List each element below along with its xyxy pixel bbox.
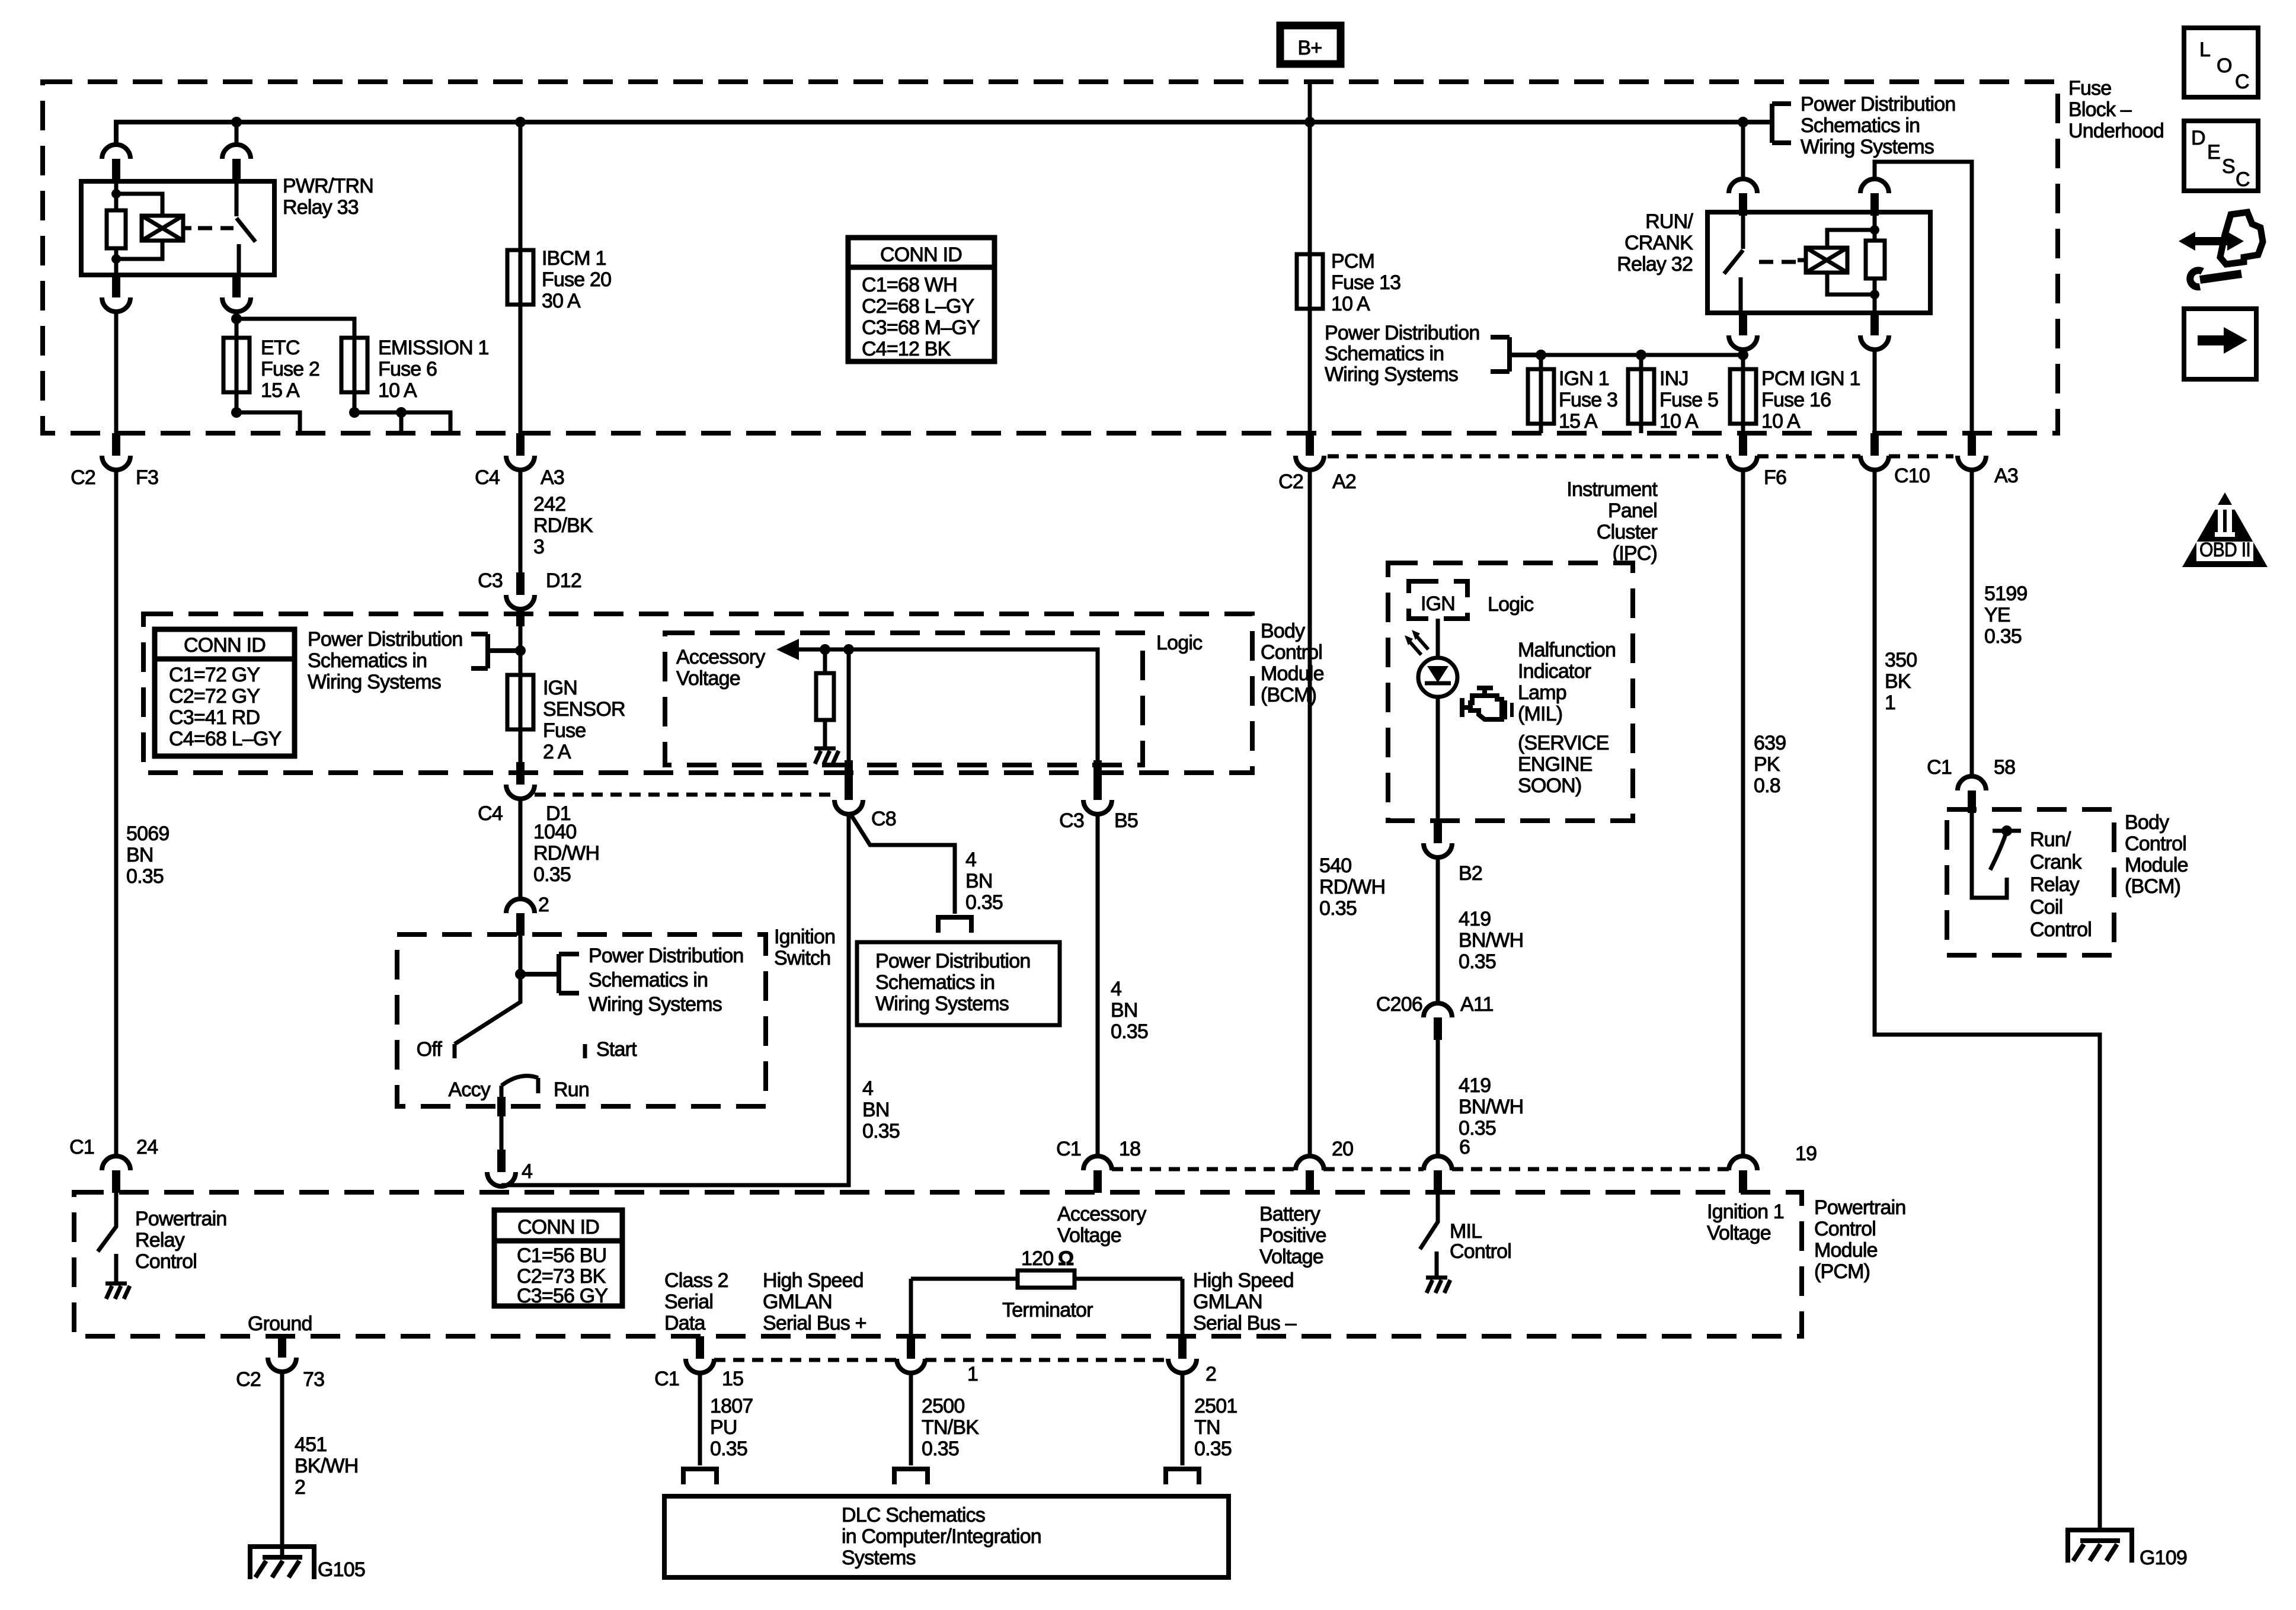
fuse PCM IGN 1 Fuse 16 10A	[1730, 350, 1860, 433]
svg-text:0.35: 0.35	[1111, 1020, 1148, 1043]
svg-text:Relay: Relay	[2030, 873, 2080, 896]
svg-text:Ground: Ground	[248, 1313, 312, 1335]
BCM dashed box	[143, 614, 1252, 773]
node ETC rail	[231, 313, 242, 324]
svg-text:E: E	[2207, 141, 2220, 164]
svg-text:CRANK: CRANK	[1625, 232, 1693, 254]
svg-text:A2: A2	[1332, 470, 1356, 493]
svg-text:C2: C2	[71, 466, 95, 489]
svg-text:Run/: Run/	[2030, 828, 2071, 851]
svg-text:SENSOR: SENSOR	[543, 698, 625, 721]
svg-text:(PCM): (PCM)	[1814, 1260, 1870, 1283]
svg-text:15 A: 15 A	[261, 379, 300, 402]
svg-text:G109: G109	[2140, 1547, 2187, 1569]
svg-text:3: 3	[533, 536, 544, 558]
accessory voltage arrow wire	[776, 639, 1098, 786]
svg-text:Serial: Serial	[664, 1291, 713, 1313]
label wire 639	[1754, 732, 1786, 797]
label wire 2501	[1194, 1395, 1237, 1460]
svg-text:C4=12 BK: C4=12 BK	[862, 338, 951, 360]
svg-text:Start: Start	[596, 1038, 637, 1061]
ground powertrain driver	[105, 1272, 130, 1299]
B+ terminal	[1280, 25, 1341, 64]
svg-text:(SERVICE: (SERVICE	[1518, 732, 1609, 754]
connector pin C1/18	[1056, 1138, 1140, 1193]
svg-text:19: 19	[1795, 1142, 1817, 1165]
svg-text:Body: Body	[2125, 811, 2169, 834]
svg-text:BN: BN	[126, 844, 154, 866]
relay32 actuator dashes	[1759, 260, 1796, 264]
accessory voltage label	[676, 646, 765, 690]
svg-text:SOON): SOON)	[1518, 774, 1581, 797]
svg-text:Control: Control	[1261, 641, 1322, 664]
svg-text:OBD II: OBD II	[2199, 539, 2250, 561]
svg-text:Schematics in: Schematics in	[1325, 343, 1444, 365]
BCM module label	[1261, 620, 1324, 706]
svg-text:Logic: Logic	[1488, 593, 1534, 616]
svg-text:4: 4	[965, 849, 976, 871]
svg-text:G105: G105	[318, 1558, 365, 1581]
svg-text:C1: C1	[654, 1368, 679, 1390]
wire 350 BK (C10 to G109)	[1875, 470, 2100, 1530]
svg-text:High Speed: High Speed	[763, 1269, 864, 1292]
node relay32 coil bottom	[1870, 290, 1879, 299]
wire rail to emission fuse	[236, 319, 354, 412]
svg-text:0.35: 0.35	[1319, 897, 1357, 920]
connector C2/A2	[1278, 433, 1356, 493]
svg-text:C4: C4	[478, 802, 503, 825]
ground BCM internal	[814, 737, 839, 764]
LOC icon	[2184, 28, 2258, 97]
svg-text:0.35: 0.35	[862, 1120, 900, 1142]
svg-text:C3=56 GY: C3=56 GY	[517, 1285, 607, 1307]
wire 5069 BN to pcm	[114, 470, 119, 1156]
relay K33 PWR/TRN box	[81, 181, 274, 275]
svg-text:Relay 32: Relay 32	[1617, 253, 1693, 276]
connector clamp relay33 right pin top	[222, 145, 251, 181]
svg-text:Power Distribution: Power Distribution	[589, 945, 744, 967]
svg-text:BN: BN	[862, 1099, 890, 1121]
fuse IGN 1 Fuse 3 15A	[1528, 355, 1617, 433]
connector C3/D12	[478, 569, 581, 609]
connector fork (branch)	[938, 915, 971, 933]
svg-text:S: S	[2222, 155, 2235, 178]
svg-text:C206: C206	[1376, 993, 1422, 1016]
label wire 540	[1319, 854, 1385, 920]
node ignition feed	[515, 969, 526, 980]
connector C1/15	[654, 1336, 743, 1390]
svg-text:Positive: Positive	[1259, 1224, 1326, 1247]
pcm connector dotted line	[1112, 1167, 1729, 1172]
svg-text:Schematics in: Schematics in	[589, 969, 708, 991]
MIL control driver	[1420, 1193, 1511, 1266]
svg-text:C: C	[2236, 168, 2250, 191]
svg-text:Underhood: Underhood	[2068, 120, 2164, 142]
accessory voltage pin label	[1057, 1203, 1146, 1247]
ipc connector dotted line	[1328, 454, 1953, 459]
wire relay33 coil output down to C2/F3	[114, 312, 119, 433]
svg-text:F3: F3	[136, 466, 158, 489]
svg-text:Panel: Panel	[1608, 500, 1657, 522]
connector A3 (ipc)	[1958, 433, 2018, 487]
wire 419 BN/WH upper	[1436, 857, 1440, 1003]
node acc resistor	[820, 644, 830, 655]
node relay33 coil bottom	[111, 254, 121, 264]
svg-text:C4: C4	[475, 466, 500, 489]
svg-text:TN/BK: TN/BK	[922, 1416, 979, 1439]
wire 540 RD/WH (A2 to pcm20)	[1308, 470, 1312, 1156]
fuse ETC Fuse 2 15A	[223, 337, 319, 402]
svg-text:Relay 33: Relay 33	[283, 196, 359, 219]
svg-text:IGN: IGN	[543, 677, 577, 699]
wire relay32 coil out to C10	[1873, 350, 1877, 433]
wire 419 BN/WH lower	[1436, 1040, 1440, 1156]
service engine soon label	[1518, 732, 1609, 797]
node rail inj	[1636, 350, 1646, 360]
svg-text:High Speed: High Speed	[1193, 1269, 1294, 1292]
svg-text:73: 73	[303, 1368, 324, 1391]
node rail pcmign1	[1738, 350, 1748, 360]
svg-text:419: 419	[1459, 908, 1491, 930]
off-page bracket power distribution (ign rail feed)	[1325, 322, 1541, 386]
svg-text:Control: Control	[2030, 918, 2092, 941]
wire 4 BN (B5 to pcm18)	[1096, 814, 1100, 1156]
svg-text:10 A: 10 A	[1659, 410, 1699, 433]
svg-text:BK/WH: BK/WH	[295, 1455, 358, 1477]
powertrain relay control driver	[98, 1193, 227, 1273]
svg-text:15 A: 15 A	[1559, 410, 1598, 433]
label wire 4 BN (branch)	[965, 849, 1003, 914]
relay33 switch	[236, 181, 255, 275]
svg-text:6: 6	[1459, 1136, 1470, 1158]
accessory voltage dashed box	[665, 633, 1143, 765]
svg-text:Serial Bus –: Serial Bus –	[1193, 1312, 1297, 1334]
svg-text:Class 2: Class 2	[664, 1269, 728, 1292]
relay K32 RUN/CRANK box	[1707, 212, 1930, 313]
connector pin 6	[1424, 1136, 1470, 1193]
node ETC output	[231, 407, 242, 418]
ground G109	[2065, 1530, 2187, 1569]
svg-text:BN: BN	[965, 870, 993, 892]
svg-text:IGN: IGN	[1421, 593, 1455, 615]
svg-text:Module: Module	[2125, 854, 2188, 876]
svg-text:Voltage: Voltage	[1259, 1246, 1323, 1268]
svg-text:Fuse 3: Fuse 3	[1559, 389, 1617, 411]
svg-text:4: 4	[862, 1077, 873, 1100]
svg-text:0.35: 0.35	[922, 1438, 959, 1460]
svg-text:15: 15	[722, 1368, 743, 1390]
bcm connector dotted line	[535, 793, 832, 797]
svg-text:5069: 5069	[126, 822, 169, 845]
svg-text:C1=68 WH: C1=68 WH	[862, 274, 957, 296]
svg-text:1: 1	[1885, 692, 1895, 714]
svg-text:YE: YE	[1984, 604, 2010, 626]
svg-text:Serial Bus +: Serial Bus +	[763, 1312, 866, 1334]
relay33 actuator dashes	[198, 226, 234, 231]
fuse IGN SENSOR 2A	[507, 675, 625, 763]
svg-text:Off: Off	[417, 1038, 443, 1061]
svg-text:A11: A11	[1460, 993, 1494, 1016]
node emission output 2	[396, 407, 407, 418]
label wire 4 BN (b5)	[1111, 978, 1148, 1043]
off-page box power distribution (branch)	[857, 942, 1060, 1025]
high speed gmlan plus label	[763, 1269, 866, 1334]
label wire 451	[295, 1433, 358, 1499]
svg-text:MIL: MIL	[1450, 1220, 1482, 1243]
svg-text:Ω: Ω	[1058, 1247, 1073, 1270]
svg-text:10 A: 10 A	[378, 379, 417, 402]
svg-text:INJ: INJ	[1659, 367, 1689, 390]
svg-text:0.35: 0.35	[965, 891, 1003, 914]
ignition 1 voltage pin label	[1707, 1201, 1784, 1244]
svg-text:C4=68 L–GY: C4=68 L–GY	[169, 728, 282, 750]
connector C3/B5	[1059, 760, 1138, 832]
svg-text:Indicator: Indicator	[1518, 660, 1591, 683]
svg-text:20: 20	[1332, 1138, 1353, 1160]
svg-text:Wiring Systems: Wiring Systems	[1801, 136, 1934, 158]
svg-text:18: 18	[1119, 1138, 1140, 1160]
connector clamp relay32 coil pin top	[1860, 179, 1889, 216]
svg-text:B2: B2	[1459, 862, 1482, 885]
label wire 419 lower	[1459, 1074, 1523, 1140]
wire relay32 coil feed from A3 riser	[1875, 162, 1972, 433]
svg-text:B5: B5	[1114, 809, 1138, 832]
ground MIL driver	[1426, 1266, 1450, 1293]
svg-text:Malfunction: Malfunction	[1518, 639, 1616, 661]
connector fork dlc 2	[1166, 1467, 1199, 1484]
relay32 coil branch wiring	[1827, 212, 1875, 313]
wire 639 PK (F6 to pcm19)	[1741, 470, 1745, 1156]
svg-text:Ignition: Ignition	[774, 926, 835, 948]
node bus-relay33 switch	[231, 117, 242, 127]
svg-text:RD/WH: RD/WH	[533, 842, 599, 865]
high speed gmlan minus label	[1193, 1269, 1297, 1334]
svg-text:C1: C1	[69, 1136, 94, 1158]
svg-text:C8: C8	[871, 808, 896, 830]
svg-text:2500: 2500	[922, 1395, 964, 1417]
svg-text:Fuse 16: Fuse 16	[1761, 389, 1831, 411]
connector C4/D1	[478, 762, 571, 825]
svg-text:Voltage: Voltage	[676, 667, 740, 690]
svg-text:30 A: 30 A	[542, 290, 581, 312]
svg-text:Relay: Relay	[135, 1229, 185, 1251]
connector clamp relay32 coil pin bottom	[1860, 313, 1889, 350]
wire bus drop to relay32 switch pin	[1741, 122, 1745, 179]
svg-text:Powertrain: Powertrain	[1814, 1196, 1906, 1219]
svg-text:Power Distribution: Power Distribution	[1325, 322, 1480, 344]
svg-text:0.35: 0.35	[1459, 950, 1496, 973]
wire 2501 TN	[1181, 1373, 1185, 1465]
node rail ign1	[1536, 350, 1546, 360]
connector clamp relay33 left pin bottom	[102, 275, 130, 312]
wire C8 branch diagonal	[850, 813, 955, 914]
svg-text:Control: Control	[1814, 1218, 1876, 1240]
svg-text:Wiring Systems: Wiring Systems	[875, 993, 1009, 1015]
wire 1807 PU	[698, 1373, 702, 1465]
svg-text:2: 2	[295, 1476, 305, 1499]
resistor relay32 internal	[1866, 241, 1885, 279]
svg-text:Accy: Accy	[449, 1078, 491, 1101]
dlc connector dotted line	[714, 1358, 1168, 1362]
conn id table PCM	[494, 1210, 622, 1307]
svg-text:O: O	[2217, 55, 2232, 77]
svg-text:RD/BK: RD/BK	[533, 514, 593, 537]
svg-text:10 A: 10 A	[1331, 293, 1370, 315]
lamp MIL led	[1418, 658, 1457, 697]
resistor relay33 internal	[107, 210, 126, 248]
connector C10	[1860, 433, 1930, 487]
coil relay32 (box with X)	[1798, 248, 1847, 273]
car diagnostic icon	[2179, 212, 2263, 287]
relay32 label	[1617, 210, 1693, 276]
svg-text:Fuse 5: Fuse 5	[1659, 389, 1718, 411]
svg-text:C2=68 L–GY: C2=68 L–GY	[862, 295, 974, 318]
svg-text:Fuse 2: Fuse 2	[261, 358, 319, 380]
engine icon	[1462, 688, 1512, 719]
svg-text:Fuse: Fuse	[2068, 77, 2111, 100]
svg-text:C2: C2	[236, 1368, 261, 1391]
svg-text:Fuse 13: Fuse 13	[1331, 271, 1400, 294]
svg-text:Wiring Systems: Wiring Systems	[308, 671, 441, 693]
wire C8 riser inside BCM	[847, 649, 851, 773]
wire ETC fuse output	[236, 412, 300, 433]
wire D12 into BCM	[519, 609, 523, 675]
svg-text:Fuse: Fuse	[543, 719, 586, 742]
svg-text:(BCM): (BCM)	[2125, 875, 2180, 898]
connector fork dlc 15	[683, 1467, 717, 1484]
svg-text:Wiring Systems: Wiring Systems	[1325, 363, 1458, 386]
svg-text:Lamp: Lamp	[1518, 681, 1566, 704]
contact Off	[417, 1038, 455, 1061]
connector C206/A11	[1376, 993, 1494, 1040]
svg-text:242: 242	[533, 493, 565, 516]
svg-text:Terminator: Terminator	[1002, 1299, 1093, 1321]
svg-text:BN/WH: BN/WH	[1459, 1096, 1523, 1118]
connector pin 1	[897, 1336, 978, 1385]
connector C2/73 ground	[236, 1335, 324, 1391]
svg-text:Logic: Logic	[1156, 632, 1203, 654]
svg-text:0.35: 0.35	[1194, 1438, 1232, 1460]
wire run output	[500, 1086, 504, 1152]
connector C8	[834, 760, 896, 830]
IPC label	[1566, 478, 1658, 565]
connector clamp relay33 switch pin bottom	[222, 275, 251, 312]
OBD II triangle	[2182, 492, 2268, 567]
class 2 serial data label	[664, 1269, 728, 1334]
svg-text:IBCM 1: IBCM 1	[542, 247, 606, 270]
off-page bracket power distribution (bus right end)	[1772, 93, 1956, 158]
label wire 1807	[710, 1395, 753, 1460]
node bus-ibcm fuse	[515, 117, 526, 127]
svg-text:C10: C10	[1894, 465, 1930, 487]
wire relay33 switch output to ETC rail	[235, 312, 239, 412]
svg-text:IGN 1: IGN 1	[1559, 367, 1609, 390]
svg-text:in Computer/Integration: in Computer/Integration	[842, 1525, 1041, 1548]
svg-text:Wiring Systems: Wiring Systems	[589, 993, 722, 1016]
svg-text:RUN/: RUN/	[1645, 210, 1693, 233]
svg-text:Fuse 20: Fuse 20	[542, 268, 611, 291]
led arrows	[1405, 630, 1428, 655]
connector fork dlc 1	[894, 1467, 928, 1484]
svg-text:Run: Run	[554, 1078, 589, 1101]
svg-text:Power Distribution: Power Distribution	[308, 628, 463, 651]
connector C1/58	[1927, 756, 2015, 813]
connector clamp relay33 left pin top	[102, 145, 130, 181]
svg-text:BN: BN	[1111, 999, 1138, 1022]
fuse block label	[2068, 77, 2164, 142]
svg-text:F6: F6	[1764, 466, 1786, 489]
svg-text:Power Distribution: Power Distribution	[1801, 93, 1956, 116]
PCM module label	[1814, 1196, 1906, 1283]
ignition switch label	[774, 926, 835, 969]
wire C8 drop to ignition switch 4	[501, 814, 849, 1185]
connector clamp relay32 switch pin top	[1729, 179, 1757, 216]
svg-text:Voltage: Voltage	[1707, 1222, 1771, 1244]
svg-text:CONN ID: CONN ID	[880, 244, 962, 266]
ground G105	[248, 1544, 365, 1581]
IGN dashed boxlet	[1409, 581, 1467, 619]
label wire 2500	[922, 1395, 979, 1460]
DESC icon	[2184, 121, 2258, 191]
conn id table BCM	[155, 629, 295, 756]
connector 2 (ignition switch)	[506, 894, 549, 936]
dlc schematics box	[664, 1496, 1229, 1577]
svg-text:C3=41 RD: C3=41 RD	[169, 706, 260, 729]
svg-text:Body: Body	[1261, 620, 1305, 642]
wire main bus	[116, 122, 1772, 145]
label wire 4 BN (drop)	[862, 1077, 900, 1142]
wire 242 RD/BK	[519, 470, 523, 574]
wire ign fuse rail	[1541, 353, 1743, 357]
svg-text:Module: Module	[1261, 662, 1324, 685]
connector F6	[1729, 433, 1786, 489]
svg-text:Accessory: Accessory	[1057, 1203, 1146, 1225]
svg-text:RD/WH: RD/WH	[1319, 876, 1385, 898]
svg-text:1: 1	[967, 1363, 978, 1385]
contact Accy-Run arc	[449, 1076, 589, 1101]
svg-text:Schematics in: Schematics in	[1801, 114, 1920, 137]
svg-text:BN/WH: BN/WH	[1459, 929, 1523, 952]
svg-text:CONN ID: CONN ID	[184, 634, 266, 657]
arrow icon	[2184, 309, 2256, 379]
IPC logic dashed box	[1388, 563, 1633, 821]
svg-text:TN: TN	[1194, 1416, 1220, 1439]
ignition switch dashed box	[397, 934, 766, 1106]
svg-text:C1: C1	[1927, 756, 1952, 779]
svg-text:PWR/TRN: PWR/TRN	[283, 175, 373, 197]
wire ign sensor fuse to C4/D1	[519, 675, 523, 762]
contact Start	[585, 1038, 637, 1061]
wire bus drop to relay33 coil pin	[235, 122, 239, 145]
svg-text:Ignition 1: Ignition 1	[1707, 1201, 1784, 1223]
svg-text:PU: PU	[710, 1416, 737, 1439]
svg-text:Cluster: Cluster	[1597, 521, 1658, 543]
node relay33 coil top	[111, 189, 121, 199]
connector clamp relay32 switch pin bottom	[1729, 313, 1757, 350]
wire EMISSION fuse outputs	[354, 412, 450, 433]
label wire 5199	[1984, 582, 2027, 648]
BCM2 module label	[2125, 811, 2188, 898]
relay33 coil branch wiring	[116, 181, 191, 275]
run/crank relay coil control driver	[1972, 813, 2092, 941]
node relay32 coil top	[1870, 225, 1879, 235]
svg-text:A3: A3	[1994, 465, 2018, 487]
connector C2/F3	[71, 433, 158, 489]
svg-text:Block –: Block –	[2068, 98, 2132, 121]
svg-text:L: L	[2199, 39, 2210, 61]
BCM2 dashed box	[1947, 809, 2114, 955]
svg-text:D12: D12	[546, 569, 581, 592]
